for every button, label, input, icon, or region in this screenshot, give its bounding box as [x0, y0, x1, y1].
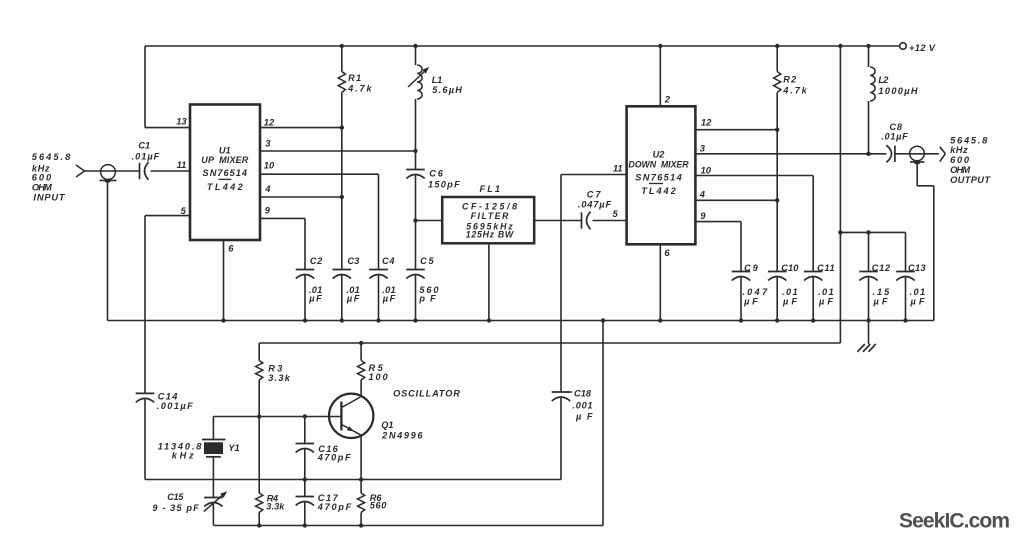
svg-text:µF: µF — [346, 293, 360, 303]
svg-text:C13: C13 — [908, 263, 926, 273]
svg-text:5: 5 — [181, 205, 187, 216]
svg-text:INPUT: INPUT — [33, 192, 66, 202]
svg-text:11: 11 — [613, 163, 623, 174]
svg-text:5: 5 — [613, 208, 619, 219]
svg-text:12: 12 — [701, 117, 712, 128]
svg-text:DOWN MIXER: DOWN MIXER — [628, 160, 689, 170]
svg-text:C18: C18 — [574, 389, 592, 399]
svg-text:µF: µF — [382, 293, 396, 303]
svg-text:U1: U1 — [219, 145, 231, 155]
svg-text:SN76514: SN76514 — [203, 168, 247, 178]
svg-text:.001µF: .001µF — [157, 401, 193, 411]
svg-text:.01: .01 — [782, 287, 798, 297]
svg-text:3: 3 — [700, 143, 706, 154]
svg-text:C14: C14 — [158, 392, 178, 402]
svg-text:C10: C10 — [781, 263, 799, 273]
svg-text:150pF: 150pF — [428, 180, 460, 190]
svg-text:470pF: 470pF — [317, 452, 351, 462]
svg-text:C4: C4 — [382, 256, 395, 266]
svg-text:4.7k: 4.7k — [347, 84, 372, 94]
svg-text:100: 100 — [369, 372, 389, 382]
svg-text:600: 600 — [950, 155, 970, 165]
svg-text:125Hz BW: 125Hz BW — [466, 230, 514, 240]
svg-text:TL442: TL442 — [641, 186, 676, 196]
svg-text:.01µF: .01µF — [881, 132, 908, 142]
svg-text:.01µF: .01µF — [132, 152, 160, 162]
svg-text:3.3k: 3.3k — [268, 373, 291, 383]
svg-text:2: 2 — [664, 94, 671, 105]
svg-text:OSCILLATOR: OSCILLATOR — [393, 389, 460, 399]
svg-text:11: 11 — [177, 159, 187, 170]
svg-text:3.3k: 3.3k — [266, 502, 285, 512]
svg-text:560: 560 — [370, 501, 388, 511]
svg-text:.01: .01 — [818, 287, 834, 297]
svg-text:.001: .001 — [573, 401, 593, 411]
svg-text:13: 13 — [176, 116, 187, 127]
svg-text:U2: U2 — [653, 149, 666, 159]
svg-text:470pF: 470pF — [317, 502, 352, 512]
svg-text:L2: L2 — [878, 75, 889, 85]
svg-text:4.7k: 4.7k — [782, 86, 807, 96]
svg-text:C3: C3 — [347, 256, 359, 266]
svg-text:C11: C11 — [817, 263, 835, 273]
svg-text:SN76514: SN76514 — [635, 172, 681, 182]
svg-text:10: 10 — [701, 164, 712, 175]
svg-text:C8: C8 — [889, 122, 902, 132]
svg-text:kHz: kHz — [950, 145, 968, 155]
svg-text:9: 9 — [700, 210, 706, 221]
svg-text:OUTPUT: OUTPUT — [950, 175, 991, 185]
svg-text:UP MIXER: UP MIXER — [201, 155, 248, 165]
svg-text:C1: C1 — [138, 141, 150, 151]
svg-text:TL442: TL442 — [207, 182, 244, 192]
svg-text:µF: µF — [308, 293, 322, 303]
svg-text:4: 4 — [264, 183, 271, 194]
svg-text:C12: C12 — [872, 263, 891, 273]
svg-text:Y1: Y1 — [228, 443, 239, 453]
svg-text:6: 6 — [228, 243, 234, 254]
svg-text:FL1: FL1 — [480, 184, 501, 194]
svg-text:L1: L1 — [432, 75, 442, 85]
svg-text:4: 4 — [699, 188, 706, 199]
svg-text:5.6µH: 5.6µH — [432, 85, 462, 95]
svg-text:600: 600 — [32, 173, 52, 183]
svg-text:3: 3 — [265, 138, 271, 149]
svg-text:.047µF: .047µF — [578, 200, 612, 210]
svg-text:OHM: OHM — [950, 165, 970, 175]
svg-text:OHM: OHM — [32, 183, 52, 193]
svg-text:10: 10 — [264, 160, 275, 171]
svg-text:R1: R1 — [348, 73, 361, 83]
svg-text:C2: C2 — [310, 256, 323, 266]
svg-text:1000µH: 1000µH — [878, 86, 917, 96]
svg-text:SeekIC.com: SeekIC.com — [899, 510, 1010, 533]
svg-text:.01: .01 — [910, 287, 926, 297]
svg-text:+12 V: +12 V — [909, 43, 936, 53]
svg-text:9: 9 — [265, 204, 271, 215]
svg-text:Q1: Q1 — [381, 420, 393, 430]
svg-text:C15: C15 — [167, 492, 184, 502]
svg-text:6: 6 — [664, 247, 670, 258]
svg-text:R2: R2 — [783, 75, 797, 85]
svg-text:kHz: kHz — [172, 450, 194, 460]
svg-text:12: 12 — [264, 117, 275, 128]
